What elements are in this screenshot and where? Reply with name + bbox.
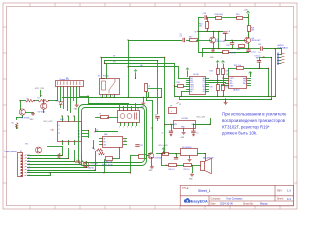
svg-text:VT1 КТ315Б: VT1 КТ315Б — [21, 117, 30, 119]
svg-text:Drawn By:: Drawn By: — [243, 203, 254, 206]
svg-text:R20: R20 — [237, 49, 240, 51]
svg-text:VT4 КТ361: VT4 КТ361 — [154, 158, 162, 160]
svg-text:ПР: ПР — [28, 172, 30, 174]
svg-text:ДЭМШ-1А: ДЭМШ-1А — [104, 161, 113, 164]
svg-text:РЭС10: РЭС10 — [103, 76, 109, 78]
svg-text:R17: R17 — [189, 37, 192, 39]
svg-text:VD1: VD1 — [56, 101, 59, 103]
svg-text:C5: C5 — [180, 36, 182, 38]
svg-text:BD139 NP: BD139 NP — [217, 41, 227, 43]
svg-text:PLAYBACK: PLAYBACK — [278, 47, 289, 50]
svg-text:М1: М1 — [137, 109, 139, 111]
svg-text:1u: 1u — [259, 52, 261, 54]
svg-text:C16: C16 — [203, 13, 206, 15]
svg-text:Company:: Company: — [211, 198, 222, 200]
svg-text:1u: 1u — [180, 34, 182, 36]
svg-text:K1: K1 — [98, 76, 100, 78]
svg-text:BD140 NP: BD140 NP — [252, 40, 262, 42]
svg-text:C9 10u: C9 10u — [255, 56, 261, 58]
svg-text:DA2: DA2 — [104, 133, 108, 136]
svg-text:DA1: DA1 — [51, 129, 55, 132]
svg-text:СТ: СТ — [28, 166, 30, 168]
svg-text:R1: R1 — [38, 97, 40, 99]
svg-text:R2: R2 — [27, 98, 29, 100]
svg-text:1/1: 1/1 — [287, 197, 291, 201]
svg-text:REV:: REV: — [277, 190, 283, 193]
svg-text:EasyEDA: EasyEDA — [191, 199, 208, 203]
svg-text:НЧ: НЧ — [28, 161, 30, 163]
svg-text:1.0: 1.0 — [287, 189, 291, 193]
svg-text:R(МФ)-1Е2 М: R(МФ)-1Е2 М — [102, 163, 113, 166]
svg-text:R26: R26 — [226, 71, 229, 73]
svg-text:R22 1.0k: R22 1.0k — [234, 65, 241, 67]
svg-text:C17 1u: C17 1u — [251, 51, 257, 53]
svg-text:R27: R27 — [226, 87, 229, 89]
svg-text:O1: O1 — [78, 130, 80, 132]
svg-text:Date:: Date: — [211, 203, 217, 206]
svg-text:U6: U6 — [226, 74, 228, 76]
svg-text:VCC_12V: VCC_12V — [35, 88, 45, 90]
svg-text:LA3161: LA3161 — [233, 89, 240, 92]
svg-text:U3 LM: U3 LM — [193, 74, 199, 76]
svg-text:Sheet:: Sheet: — [277, 198, 284, 201]
svg-text:Резерв ПГК: Резерв ПГК — [60, 79, 71, 81]
svg-text:AUDIO: AUDIO — [278, 44, 285, 47]
svg-text:2024-10-06: 2024-10-06 — [220, 203, 233, 206]
svg-text:VCC_12V: VCC_12V — [197, 117, 206, 119]
svg-text:VCC_AUR: VCC_AUR — [159, 144, 169, 147]
svg-text:C21: C21 — [140, 145, 143, 147]
svg-text:56k: 56k — [199, 26, 202, 28]
svg-text:ЛК: ЛК — [28, 169, 30, 171]
svg-text:U7: U7 — [20, 151, 22, 153]
svg-text:TITLE:: TITLE: — [182, 188, 189, 190]
svg-text:ОК: ОК — [28, 175, 30, 177]
svg-text:Масир: Масир — [260, 203, 268, 206]
svg-text:VT3 ЭМУ: VT3 ЭМУ — [91, 164, 99, 166]
svg-text:8 пров. резинка: 8 пров. резинка — [5, 151, 17, 153]
svg-text:C10: C10 — [258, 44, 261, 46]
svg-text:VT2 КТ361: VT2 КТ361 — [38, 112, 46, 114]
svg-text:ХР: ХР — [170, 106, 172, 108]
svg-text:VT2: VT2 — [25, 144, 28, 146]
svg-text:U4 7805: U4 7805 — [182, 118, 188, 120]
svg-text:ЭК: ЭК — [124, 140, 126, 142]
svg-text:n: n — [228, 33, 229, 35]
svg-text:ПАУЗЫ: ПАУЗЫ — [88, 167, 94, 170]
svg-text:BA1 ДЭМ-4М: BA1 ДЭМ-4М — [203, 157, 214, 160]
svg-text:1u: 1u — [162, 133, 164, 135]
svg-text:При использовании в усилителе: При использовании в усилителе — [222, 112, 287, 117]
svg-text:C18: C18 — [226, 45, 229, 47]
svg-text:IN2+: IN2+ — [243, 83, 247, 85]
svg-text:O3: O3 — [78, 136, 80, 138]
svg-text:должен быть 10k.: должен быть 10k. — [222, 131, 257, 136]
svg-text:Your Company: Your Company — [226, 197, 243, 200]
svg-text:W: W — [195, 32, 197, 34]
svg-text:Sheet_1: Sheet_1 — [198, 189, 211, 193]
svg-text:1u: 1u — [197, 133, 199, 135]
svg-text:R31 1.0: R31 1.0 — [184, 169, 190, 171]
svg-text:U5 LM78L05: U5 LM78L05 — [182, 147, 192, 149]
svg-text:R3: R3 — [12, 123, 14, 125]
svg-text:R19: R19 — [236, 14, 239, 16]
svg-text:К561: К561 — [60, 119, 64, 121]
svg-text:O2: O2 — [78, 133, 80, 135]
svg-text:КТ3102Г, резистор R19*: КТ3102Г, резистор R19* — [222, 124, 270, 129]
svg-text:ГЛ: ГЛ — [28, 155, 30, 157]
svg-text:воспроизведения транзисторов: воспроизведения транзисторов — [222, 118, 286, 123]
svg-text:G1: G1 — [203, 91, 205, 93]
svg-text:560: 560 — [251, 30, 254, 32]
svg-text:R15: R15 — [210, 87, 213, 89]
svg-text:R16: R16 — [177, 82, 180, 84]
svg-text:VCC_4.7V: VCC_4.7V — [44, 121, 54, 123]
svg-text:R30 1.0: R30 1.0 — [169, 169, 175, 171]
svg-text:ОБ: ОБ — [28, 163, 30, 165]
svg-text:R14: R14 — [210, 71, 213, 73]
svg-text:R24 100: R24 100 — [230, 53, 236, 55]
svg-text:R18 (10k): R18 (10k) — [215, 14, 224, 16]
